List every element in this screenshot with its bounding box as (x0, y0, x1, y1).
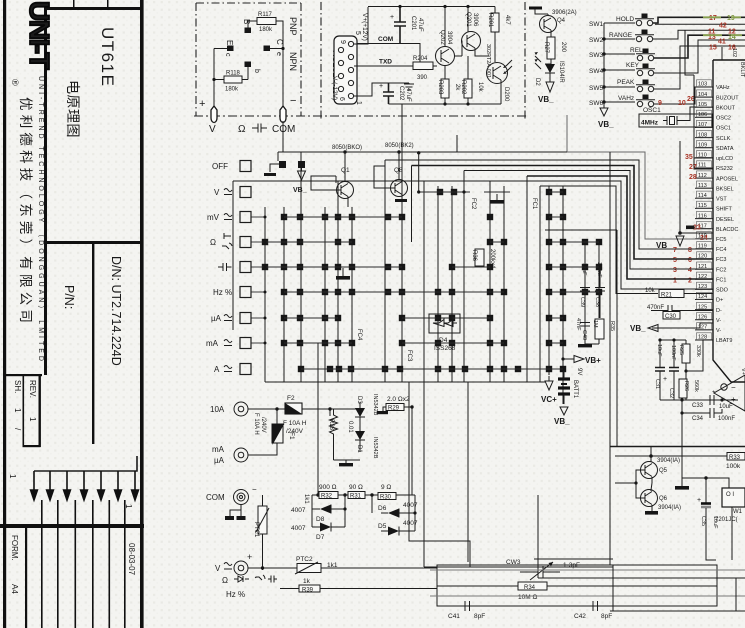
svg-text:c: c (224, 53, 231, 57)
svg-text:R202: R202 (460, 80, 466, 95)
wire R29 to node (404, 407, 412, 495)
pin 111 RS232 (695, 161, 733, 172)
function row &#937; y242 (210, 233, 251, 249)
svg-text:mA: mA (206, 339, 219, 348)
wire sw1 to bus17 (653, 17, 745, 23)
svg-text:R32: R32 (321, 494, 333, 500)
pin 110 upLCD (695, 151, 733, 162)
node blacdc (678, 231, 682, 235)
revision arrow rail (34, 456, 137, 471)
bottom rail caps (660, 399, 738, 401)
svg-text:10A: 10A (210, 405, 225, 414)
capacitor C40 (580, 318, 590, 344)
svg-text:47nF: 47nF (575, 318, 581, 331)
svg-text:NPN: NPN (288, 52, 298, 71)
pin 104 BUZOUT (695, 90, 739, 101)
form row heavy divider (0, 524, 144, 528)
svg-text:Ω: Ω (238, 124, 246, 135)
svg-text:105: 105 (698, 102, 707, 108)
top rail caps (660, 340, 686, 367)
wire column x325 (324, 207, 326, 382)
crystal box (639, 114, 712, 127)
svg-text:C40: C40 (581, 330, 587, 340)
capacitor C201 (394, 7, 406, 44)
wire V- from DB9 (354, 83, 409, 96)
svg-text:A4: A4 (10, 584, 19, 594)
svg-text:47uF: 47uF (417, 18, 423, 32)
svg-text:4007: 4007 (403, 502, 418, 509)
resistor R31 (348, 492, 365, 499)
rail junction sw4 (602, 68, 605, 71)
fuse F2 (285, 403, 302, 414)
svg-text:电原理图: 电原理图 (65, 80, 81, 138)
svg-text:V-: V- (716, 318, 721, 324)
switch SW5 PEAK (617, 79, 655, 92)
Q6 emitter ground (645, 511, 658, 515)
rail junction sw6 (602, 100, 605, 103)
bottom network loop (437, 565, 717, 606)
capacitor C202 (383, 83, 394, 104)
switch contact row y369 (298, 366, 566, 372)
switch SW6 VAHz (618, 95, 655, 107)
svg-text:3904(IA): 3904(IA) (658, 505, 681, 511)
wire crystal to pin105 (681, 107, 713, 121)
wire vb rail to bend (567, 115, 713, 239)
svg-text:115: 115 (698, 203, 707, 209)
wire v- rail down (681, 400, 683, 478)
wire bus42 (655, 23, 745, 25)
svg-text:R28: R28 (328, 419, 334, 431)
svg-text:8pF: 8pF (601, 613, 612, 620)
svg-text:F 10A H: F 10A H (283, 420, 307, 427)
switch SW1 HOLD (616, 14, 654, 26)
node rail q8 (397, 150, 400, 153)
resistor R34 (518, 582, 547, 590)
svg-text:Ω: Ω (210, 238, 216, 247)
wire left rail (214, 49, 228, 109)
svg-text:B: B (242, 19, 251, 24)
svg-text:+: + (199, 98, 205, 110)
op-amp input bubble (721, 384, 727, 390)
svg-text:D5: D5 (378, 523, 387, 530)
svg-text:FORM.: FORM. (10, 535, 19, 561)
switch SW4 KEY (626, 62, 655, 76)
svg-text:OFF: OFF (212, 162, 228, 171)
wire SDO L (540, 186, 658, 294)
svg-text:102: 102 (731, 48, 737, 57)
svg-text:1-3pF: 1-3pF (563, 562, 580, 569)
socket pin E (227, 46, 234, 52)
switch contact row y267 (262, 264, 602, 270)
svg-text:C34: C34 (692, 416, 704, 422)
wire sw4 to bus41 (654, 40, 745, 73)
svg-text:Q202: Q202 (439, 30, 445, 45)
wire column x284 (283, 207, 285, 382)
svg-text:V+(+12V): V+(+12V) (361, 13, 368, 41)
svg-text:R30: R30 (380, 495, 392, 501)
COM jack (234, 490, 249, 505)
grounded contact square (279, 161, 286, 168)
revision column line 3 (75, 500, 77, 628)
transistor Q1 (337, 182, 354, 199)
svg-text:−: − (290, 95, 296, 107)
svg-text:BKSEL: BKSEL (716, 186, 734, 192)
svg-text:112: 112 (698, 173, 707, 179)
svg-text:R203: R203 (437, 80, 443, 95)
wire matrix drop x424 (423, 382, 425, 567)
resistor R33 (727, 453, 745, 461)
wire FC1 L (233, 181, 713, 289)
ground right rail (681, 478, 683, 486)
svg-text:10uF: 10uF (656, 344, 662, 357)
frame top border (44, 7, 143, 10)
svg-text:8050(BK2): 8050(BK2) (385, 143, 414, 149)
svg-text:UT61E: UT61E (98, 27, 117, 87)
pin 123 SDO (695, 282, 729, 293)
switch SW3 REL (630, 47, 655, 61)
switch contact row y343 (281, 340, 566, 346)
svg-text:+: + (663, 376, 667, 383)
rail junction sw3 (602, 52, 605, 55)
wire column x418.7 (418, 153, 420, 192)
resistor R25 (682, 344, 690, 363)
wire 10A to F2 (248, 408, 285, 410)
form column divider (25, 528, 27, 628)
wire b to R118 (242, 67, 248, 80)
fuse F1 (273, 425, 283, 443)
transistor Q202 (436, 47, 455, 66)
svg-text:PNP: PNP (288, 17, 298, 36)
svg-text:19: 19 (727, 15, 735, 22)
mA uA jack (234, 448, 248, 462)
wire r28 top (330, 408, 360, 410)
node c34 (680, 411, 683, 414)
svg-text:µA: µA (211, 314, 222, 323)
svg-text:D3: D3 (356, 396, 362, 404)
svg-text:W1: W1 (733, 509, 743, 515)
svg-text:900 Ω: 900 Ω (319, 484, 337, 491)
top power rail (368, 6, 495, 8)
wire RS232 drop (685, 31, 713, 159)
DB9 pin l3 (338, 73, 343, 78)
svg-text:FC2: FC2 (470, 198, 476, 210)
svg-text:RANGE: RANGE (609, 32, 633, 39)
wire bus G (534, 558, 613, 560)
svg-text:COM: COM (378, 36, 393, 43)
svg-text:113: 113 (698, 183, 707, 189)
svg-text:RS232: RS232 (716, 166, 733, 172)
wire sw3 to bus13 (654, 35, 745, 58)
P/N D/N divider (92, 244, 94, 444)
svg-text:F 10A H: F 10A H (253, 413, 259, 435)
svg-text:IS104IR: IS104IR (558, 61, 564, 83)
wire diode rails (312, 495, 415, 531)
revision column line 5 (109, 500, 111, 628)
svg-text:1: 1 (13, 408, 22, 413)
socket pin b (245, 62, 252, 68)
DB9 pin r2 (348, 54, 353, 59)
svg-text:E: E (225, 40, 234, 45)
svg-text:SW2: SW2 (589, 37, 603, 44)
svg-text:FC3: FC3 (406, 350, 412, 362)
svg-text:F1: F1 (288, 432, 295, 440)
svg-text:R21: R21 (661, 293, 673, 299)
svg-text:C: C (275, 39, 284, 45)
svg-text:1: 1 (124, 504, 133, 509)
svg-text:3906: 3906 (472, 13, 478, 27)
10A jack (234, 402, 248, 416)
svg-text:BKOUT: BKOUT (716, 105, 736, 111)
svg-text:SDO: SDO (716, 288, 729, 294)
svg-text:D7: D7 (316, 534, 325, 541)
svg-text:VB_: VB_ (598, 120, 614, 129)
wire column x424 (423, 181, 425, 567)
svg-text:PEAK: PEAK (617, 79, 635, 86)
svg-text:1k1: 1k1 (303, 494, 309, 504)
switch contact row y192 (417, 189, 566, 195)
DB9 pin l2 (338, 60, 343, 65)
pin 117 BLACDC (695, 222, 738, 233)
frame left border (3, 0, 6, 628)
svg-text:D+: D+ (716, 298, 723, 304)
node r31 r30 (343, 493, 346, 496)
svg-text:R117: R117 (258, 12, 273, 18)
regulator W1 (722, 488, 745, 507)
node d8 (343, 507, 346, 510)
grounded contact bar (264, 173, 276, 176)
wire R201 (494, 7, 496, 63)
wire bus F vertical (735, 578, 737, 611)
svg-text:100nF: 100nF (670, 345, 676, 361)
wire green segment bus17 (703, 16, 741, 18)
pin 119 FC4 (695, 242, 726, 253)
svg-text:R36: R36 (471, 250, 477, 262)
svg-text:−: − (731, 383, 736, 392)
W1 bottom wire (731, 507, 733, 560)
wire q5 collector (650, 447, 652, 462)
pin 122 FC1 (695, 272, 726, 283)
C30 refdes box (663, 312, 680, 320)
rs232 box dashed left (320, 2, 322, 119)
svg-text:R31: R31 (350, 494, 362, 500)
transistor Q8 (391, 180, 408, 197)
resistor R35 (595, 319, 604, 339)
capacitor C35 (705, 478, 707, 503)
transistor Q6 (641, 490, 658, 507)
resistor R30 (378, 493, 396, 500)
wire sw2 to bus11 (653, 30, 745, 39)
svg-text:302PT2A-001: 302PT2A-001 (485, 44, 491, 78)
svg-text:124: 124 (698, 294, 707, 300)
COM banana jack (280, 106, 286, 123)
socket pin B (245, 28, 252, 34)
svg-text:OSC1: OSC1 (643, 107, 661, 114)
wire r34 row (437, 585, 717, 587)
resistor R27 (547, 37, 555, 59)
svg-text:FC2: FC2 (716, 267, 726, 273)
capacitor C34 (682, 408, 722, 418)
svg-text:SHIFT: SHIFT (716, 207, 733, 213)
capacitor C32 (669, 368, 679, 372)
transistor Q4 (540, 16, 557, 33)
svg-text:CW3: CW3 (506, 559, 521, 566)
wire function to matrix y242 (251, 241, 265, 243)
capacitor C42 (560, 601, 623, 611)
switch contact row y242 (262, 239, 602, 245)
svg-text:15: 15 (709, 45, 717, 52)
node shunt 1 (316, 493, 319, 496)
svg-text:R33: R33 (729, 455, 741, 461)
svg-text:Hz %: Hz % (226, 590, 245, 599)
wire column x438 (437, 186, 439, 382)
wire left col down (262, 495, 264, 506)
node v rail (261, 566, 264, 569)
pin 103 VAHz (695, 80, 730, 91)
svg-text:10k: 10k (477, 82, 483, 93)
svg-text:FC5: FC5 (716, 237, 726, 243)
wire COM (357, 44, 420, 67)
svg-text:mA: mA (212, 445, 225, 454)
VB_ drop triangle (298, 168, 306, 180)
diode pair D4 (429, 314, 460, 333)
svg-text:D-: D- (716, 308, 722, 314)
wire function to matrix y267 (251, 266, 265, 268)
svg-text:+: + (247, 552, 252, 562)
svg-text:PTC2: PTC2 (296, 556, 313, 563)
svg-text:FC1: FC1 (716, 278, 726, 284)
svg-text:VST: VST (716, 197, 727, 203)
rev box top line (6, 374, 42, 376)
rev box bottom line (23, 445, 41, 447)
svg-text:10M Ω: 10M Ω (518, 594, 537, 601)
wire B to R117 (248, 21, 257, 28)
Q1 base loop (311, 176, 341, 190)
VB+ bar (529, 7, 542, 10)
svg-text:9: 9 (658, 100, 662, 107)
svg-text:优利德科技（东莞）有限公司: 优利德科技（东莞）有限公司 (18, 97, 33, 327)
svg-text:42: 42 (719, 23, 727, 30)
wire bus D2 (430, 595, 745, 597)
resistor R39 (299, 585, 320, 592)
svg-text:R29: R29 (388, 406, 400, 412)
wire column x549 (548, 186, 550, 375)
svg-text:560k: 560k (693, 380, 699, 392)
svg-text:C35: C35 (700, 516, 706, 526)
wire TXD (354, 65, 413, 67)
svg-text:9 Ω: 9 Ω (381, 484, 391, 491)
capacitor C33 (682, 395, 722, 405)
revision arrow 3 (64, 471, 71, 500)
svg-text:IN5342B: IN5342B (372, 437, 378, 459)
pin 107 OSC1 (695, 120, 731, 131)
svg-text:V: V (214, 188, 220, 197)
svg-text:180k: 180k (259, 27, 273, 33)
function row cap y267 (218, 262, 251, 273)
svg-text:7: 7 (673, 247, 677, 254)
trimmer CW3 (520, 562, 560, 580)
hFE box dashed border (196, 3, 301, 116)
wire hfe to matrix (283, 121, 301, 152)
svg-text:8050(BKO): 8050(BKO) (332, 145, 362, 151)
svg-text:C38: C38 (594, 297, 600, 307)
svg-text:10: 10 (678, 100, 686, 107)
svg-text:+: + (379, 83, 383, 90)
svg-text:390: 390 (417, 75, 428, 81)
frame logo divider (44, 7, 47, 375)
blacdc dark mark (686, 226, 695, 230)
pin 118 FC5 (695, 232, 726, 243)
capacitor C39 (580, 267, 590, 318)
wire column x599 (598, 242, 600, 318)
svg-text:C33: C33 (692, 403, 704, 409)
pin 109 SDATA (695, 141, 734, 152)
node rail c201 (398, 5, 401, 8)
svg-text:125: 125 (698, 304, 707, 310)
pin 116 DESEL (695, 211, 734, 222)
wire top rail left end (277, 152, 279, 161)
wire shunt loop (312, 343, 318, 495)
svg-text:103: 103 (698, 82, 707, 88)
svg-text:FC4: FC4 (356, 329, 362, 341)
wire column x452 (451, 186, 453, 382)
svg-text:9: 9 (339, 40, 346, 44)
svg-text:4MHz: 4MHz (641, 120, 659, 127)
svg-text:C32: C32 (668, 388, 674, 398)
V banana jack (211, 106, 217, 123)
function row mA y343 (206, 338, 251, 349)
wire function to matrix y318 (251, 317, 265, 319)
switch SW2 RANGE (609, 30, 654, 42)
wire bus D (430, 569, 745, 571)
wire 8050 rail (278, 151, 567, 153)
svg-text:Q8: Q8 (394, 167, 403, 174)
svg-text:PTC1: PTC1 (253, 522, 259, 538)
svg-text:Hz %: Hz % (213, 288, 232, 297)
wire mA to F1 (248, 443, 277, 455)
svg-text:3904(IA): 3904(IA) (657, 458, 680, 464)
op-amp U2 (714, 375, 745, 411)
wire R25 bottom to R26 (685, 363, 687, 400)
svg-text:D2: D2 (534, 78, 540, 86)
svg-text:UNI-TREND TECHNOLOGY （DONGGUAN: UNI-TREND TECHNOLOGY （DONGGUAN） LMITED (37, 76, 45, 364)
pin 108 SCLK (695, 130, 731, 141)
PTC1 (258, 506, 267, 534)
svg-text:5: 5 (673, 257, 677, 264)
svg-text:1: 1 (355, 101, 362, 105)
pin 112 APOSEL (695, 171, 738, 182)
svg-text:BATT1: BATT1 (572, 380, 578, 399)
svg-text:VB+: VB+ (585, 356, 601, 365)
wire matrix left edge (232, 181, 234, 330)
socket pin C (264, 46, 271, 52)
Q8 base wire (374, 166, 395, 188)
ground mid matrix (496, 194, 498, 200)
R29 ground (383, 407, 386, 411)
svg-text:104: 104 (698, 92, 707, 98)
svg-text:2.0 Ωx2: 2.0 Ωx2 (387, 396, 410, 403)
wire omega row to R39 (280, 588, 437, 590)
svg-text:4007: 4007 (403, 520, 418, 527)
top edge tick 2 (107, 0, 109, 8)
wire matrix bottom (265, 381, 545, 383)
LED D2 (545, 59, 551, 64)
svg-text:4007: 4007 (291, 525, 306, 532)
VB_ left arrow (648, 323, 713, 332)
svg-text:COM: COM (272, 124, 295, 135)
wire APOSEL drop (694, 75, 713, 169)
svg-text:24: 24 (700, 235, 708, 242)
svg-text:1: 1 (28, 417, 37, 422)
